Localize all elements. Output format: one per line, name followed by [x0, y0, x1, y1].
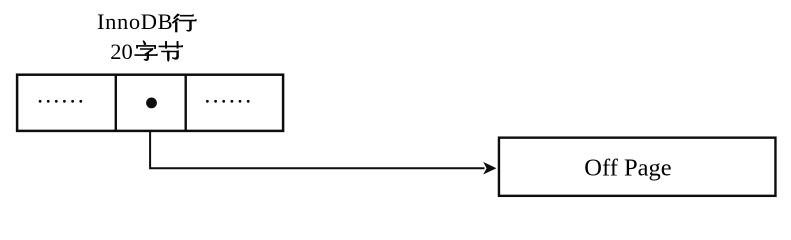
svg-text:Off Page: Off Page — [584, 154, 671, 181]
svg-text:20: 20 — [110, 39, 133, 64]
svg-text:InnoDB: InnoDB — [97, 9, 173, 34]
